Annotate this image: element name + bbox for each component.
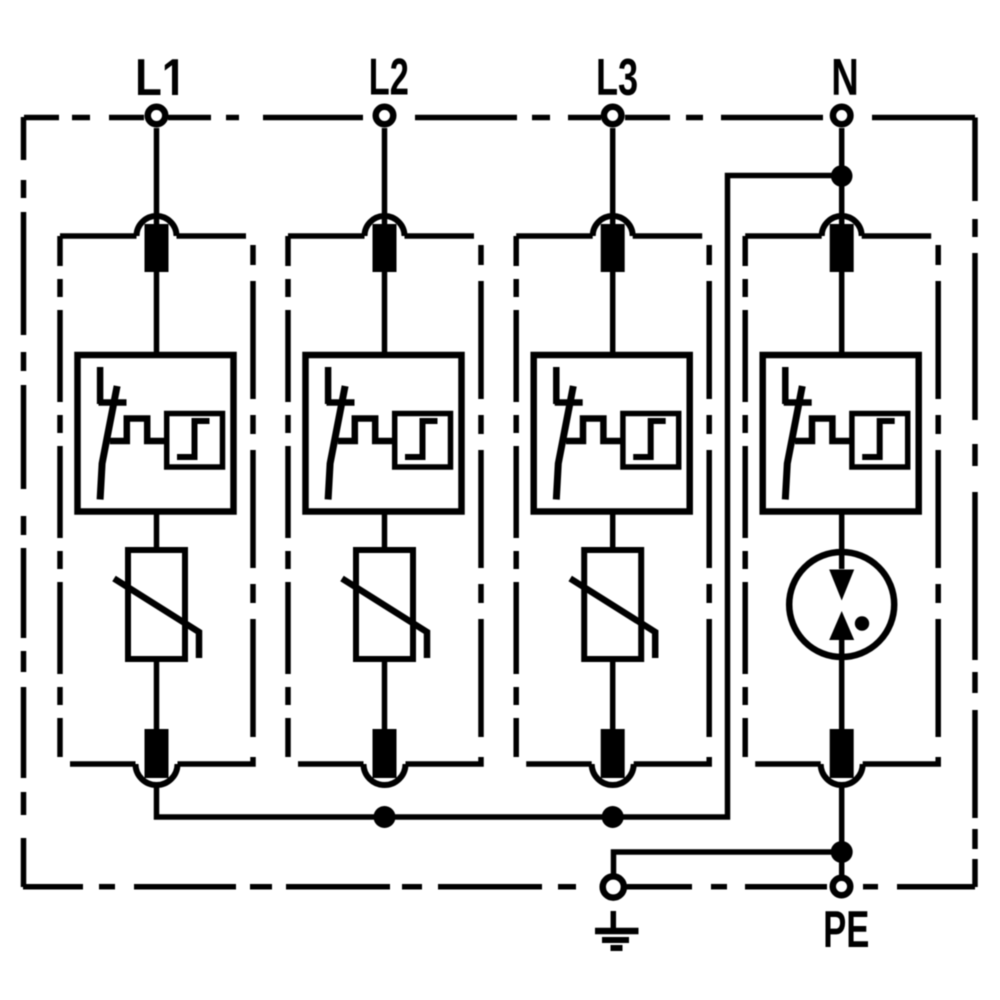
upper plug-in connector L3 (arc) (593, 216, 633, 236)
enclosure border, right side (972, 118, 978, 888)
wire, varistor to lower connector L3 (610, 659, 616, 730)
terminal N (833, 107, 851, 125)
enclosure border, bottom side (23, 884, 975, 890)
lower plug-in connector L3 (contact blade) (601, 729, 625, 778)
enclosure border (dash-dot), top side (24, 115, 975, 121)
lower plug-in connector N (contact blade) (830, 729, 854, 778)
wire L1 terminal to upper plug (154, 128, 160, 230)
varistor L1 (114, 550, 199, 659)
lower plug-in connector L1 (contact blade) (145, 729, 169, 778)
terminal L1 label (138, 59, 178, 95)
wire L3 terminal to upper plug (610, 128, 616, 230)
node, bus junction at L3 (602, 806, 624, 828)
varistor L3 (570, 550, 655, 659)
node, bus junction at L2 (374, 806, 396, 828)
wire, lower connector rail right with corner (863, 757, 939, 764)
wire, lower connector rail left (298, 761, 364, 767)
module boundary L2, left dashed edge (285, 236, 291, 757)
terminal L2 label (371, 58, 407, 94)
terminal PE (833, 878, 851, 896)
module boundary N, left dashed edge (742, 236, 748, 757)
wire, spark gap to lower connector (839, 640, 845, 730)
wire, disconnector to spark gap (839, 511, 845, 569)
lower plug-in connector L1 (arc) (136, 764, 178, 785)
wire, varistor to lower connector L2 (382, 659, 388, 730)
wire, lower connector rail left (755, 761, 821, 767)
wire, upper connector rail right (405, 233, 475, 239)
module boundary L1, right dashed edge (250, 245, 256, 265)
lower plug-in connector L3 (arc) (592, 764, 634, 785)
wire, spark gap output down to PE terminal (839, 785, 845, 878)
wire, lower connector rail right with corner (178, 757, 254, 764)
wire, upper connector rail left (745, 233, 822, 239)
upper plug-in connector L3 (contact blade) (601, 224, 625, 272)
upper plug-in connector L2 (contact blade) (373, 224, 397, 272)
enclosure border, left side (21, 117, 27, 887)
terminal L3 label (598, 58, 636, 95)
wire, upper connector rail right (177, 233, 247, 239)
module boundary L3, right dashed edge (706, 245, 712, 265)
wire, common bus L1-L2-L3 bottoms up to node N (157, 176, 842, 818)
wire, lower connector rail right with corner (406, 757, 482, 764)
wire, upper connector to disconnector L3 (610, 272, 616, 358)
wire, lower connector rail right with corner (634, 757, 710, 764)
thermal disconnector L3 (box) (534, 355, 690, 512)
upper plug-in connector L1 (contact blade) (145, 224, 169, 272)
upper plug-in connector L1 (arc) (137, 216, 177, 236)
upper plug-in connector N (arc) (822, 216, 862, 236)
wire, disconnector to varistor L3 (610, 511, 616, 553)
varistor L2 (342, 550, 427, 659)
thermal disconnector N (box) (763, 355, 919, 512)
wire, upper connector rail left (288, 233, 365, 239)
wire, upper connector to disconnector L1 (154, 272, 160, 358)
terminal PE label (825, 911, 868, 947)
wire, upper connector rail right (633, 233, 703, 239)
upper plug-in connector L2 (arc) (365, 216, 405, 236)
lower plug-in connector L2 (contact blade) (373, 729, 397, 778)
module boundary L1, left dashed edge (57, 236, 63, 757)
terminal L3 (604, 107, 622, 125)
module boundary L2, right dashed edge (478, 245, 484, 265)
terminal N label (834, 59, 856, 95)
module boundary N, right dashed edge (935, 245, 941, 265)
ground (595, 911, 639, 948)
node, N junction (831, 165, 853, 187)
wire, PE junction to earth terminal (614, 852, 842, 875)
lower plug-in connector L2 (arc) (364, 764, 406, 785)
wire, disconnector to varistor L2 (382, 511, 388, 553)
terminal L1 (148, 107, 166, 125)
wire, upper connector rail left (60, 233, 137, 239)
thermal disconnector L1 (box) (78, 355, 234, 512)
thermal disconnector L2 (box) (306, 355, 462, 512)
terminal, earth connection (603, 876, 624, 897)
lower plug-in connector N (arc) (821, 764, 863, 785)
wire, lower connector rail left (526, 761, 592, 767)
wire N terminal to upper plug (839, 128, 845, 230)
wire L2 terminal to upper plug (382, 128, 388, 230)
wire, upper connector rail right (862, 233, 932, 239)
wire, disconnector to varistor L1 (154, 511, 160, 553)
node, PE junction (831, 841, 853, 863)
wire, varistor to lower connector L1 (154, 659, 160, 730)
terminal L2 (376, 107, 394, 125)
wire, lower connector rail left (70, 761, 136, 767)
wire, upper connector rail left (516, 233, 593, 239)
wire, upper connector to disconnector L2 (382, 272, 388, 358)
module boundary L3, left dashed edge (513, 236, 519, 757)
spark gap F1 (N-PE) (789, 552, 894, 657)
wire, upper connector to disconnector N (839, 272, 845, 358)
upper plug-in connector N (contact blade) (830, 224, 854, 272)
